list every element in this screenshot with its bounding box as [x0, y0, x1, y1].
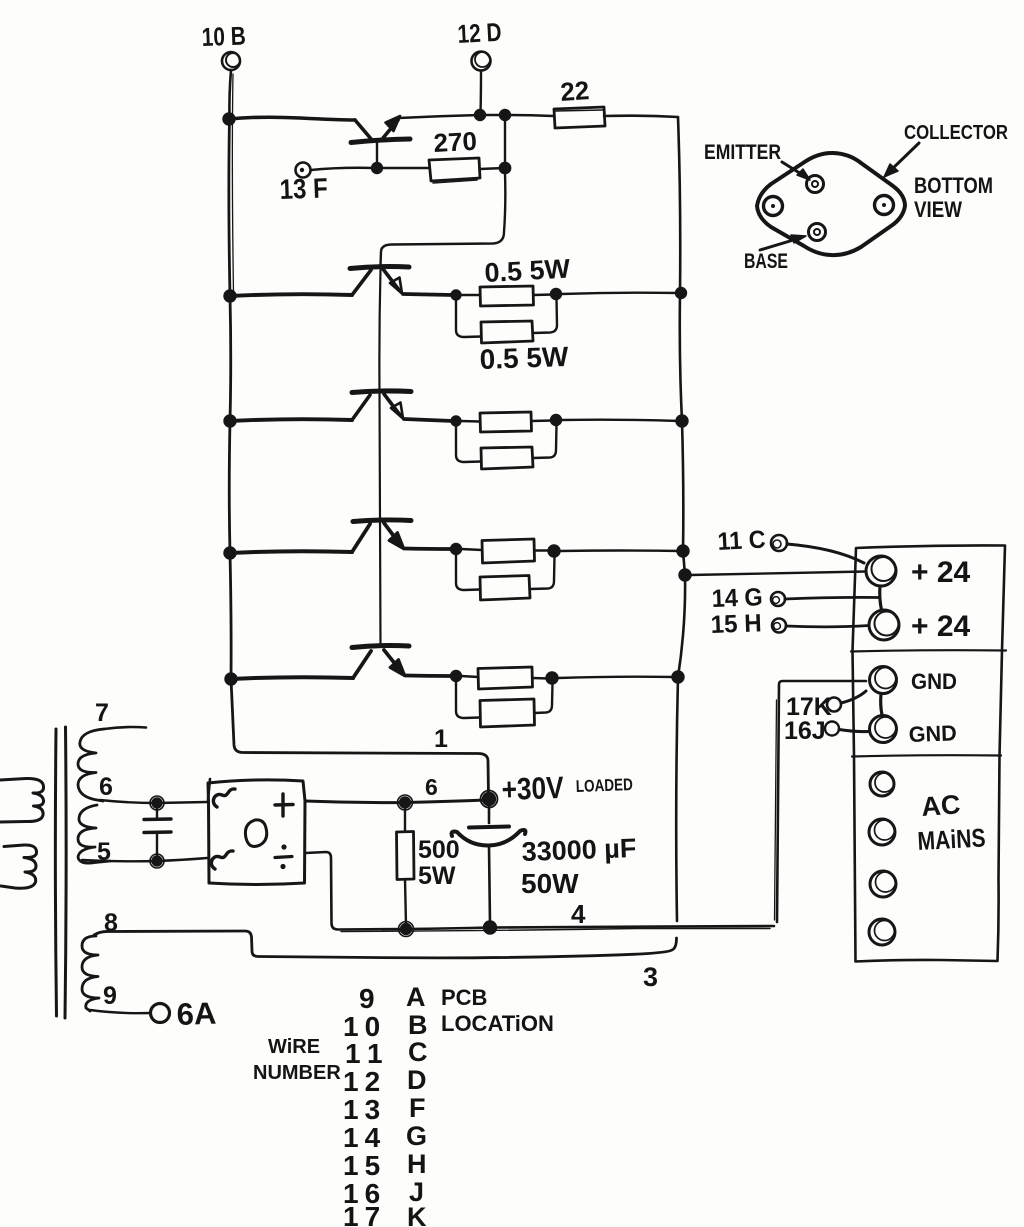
svg-text:17: 17	[343, 1201, 386, 1227]
wire 13F to base node	[311, 168, 376, 170]
TO-3 package outline	[757, 153, 905, 255]
svg-text:33000 µF: 33000 µF	[521, 833, 637, 867]
svg-text:GND: GND	[911, 669, 957, 694]
wire 4 rectifier minus to GND riser	[305, 852, 774, 932]
svg-text:+ 24: + 24	[911, 556, 971, 589]
node Q3 emitter right	[551, 415, 561, 425]
terminal 15H	[710, 609, 869, 639]
svg-text:COLLECTOR: COLLECTOR	[904, 122, 1008, 144]
svg-text:10 B: 10 B	[201, 20, 246, 52]
AC mains terminal 3	[870, 871, 896, 897]
resistor R5b	[456, 553, 555, 600]
resistor R6a	[461, 667, 549, 689]
svg-text:0.5 5W: 0.5 5W	[479, 341, 569, 375]
node Q1 base	[372, 163, 382, 173]
transistor Q2	[230, 267, 453, 297]
node bus Q3 row	[225, 416, 236, 427]
node rail-R270	[500, 110, 510, 120]
AC mains terminal 2	[869, 819, 895, 845]
node bus Q2 row	[225, 291, 236, 302]
terminal 12D	[457, 17, 503, 114]
svg-text:PCB: PCB	[441, 985, 487, 1010]
svg-text:50W: 50W	[521, 868, 579, 899]
wire base node to R270	[382, 167, 429, 169]
terminal +24 lower	[869, 610, 971, 643]
terminal 14G	[711, 583, 879, 613]
label COLLECTOR with arrow	[884, 122, 1008, 177]
svg-text:12: 12	[343, 1066, 386, 1097]
bridge rectifier U1	[208, 779, 305, 885]
svg-text:11 C: 11 C	[717, 526, 766, 556]
svg-text:0.5 5W: 0.5 5W	[484, 254, 572, 288]
svg-text:15 H: 15 H	[710, 609, 762, 639]
svg-text:6: 6	[99, 773, 113, 801]
resistor R3a 0.5 5W	[460, 254, 571, 306]
terminal GND upper	[870, 667, 958, 695]
label BOTTOM VIEW	[914, 173, 993, 222]
wire GND link	[881, 694, 882, 715]
wire Q3 row to right bus	[561, 420, 679, 421]
terminal 10B	[201, 20, 246, 118]
node Q5 emitter right	[547, 673, 558, 684]
transistor Q5	[231, 646, 453, 680]
node right bus Q2	[676, 288, 686, 298]
resistor R2 270ohm	[429, 126, 504, 183]
label wire 1	[434, 725, 448, 753]
pcb location table	[406, 982, 428, 1227]
node cap top	[150, 796, 164, 810]
label PCB LOCATION	[441, 985, 554, 1036]
label 7	[95, 699, 109, 727]
svg-text:5W: 5W	[418, 862, 456, 890]
svg-text:LOCATiON: LOCATiON	[441, 1011, 554, 1036]
resistor R6b	[456, 680, 553, 727]
wire Q4 row to right bus	[560, 549, 680, 552]
label EMITTER with arrow	[704, 141, 810, 180]
terminal block outline	[853, 545, 1006, 961]
label 5 winding	[97, 838, 111, 866]
svg-text:500: 500	[418, 836, 460, 864]
svg-text:K: K	[407, 1202, 427, 1227]
svg-text:NUMBER: NUMBER	[253, 1062, 341, 1084]
transistor Q1	[351, 116, 410, 167]
svg-text:WiRE: WiRE	[268, 1036, 320, 1058]
capacitor C2 33000uF	[452, 805, 637, 924]
resistor R4b	[456, 425, 557, 469]
node 500 bottom	[399, 922, 414, 937]
wire 6 transformer to rectifier	[100, 800, 207, 803]
node right bus Q4	[678, 546, 689, 557]
node C2 bottom	[484, 922, 496, 934]
svg-text:A: A	[406, 982, 426, 1012]
svg-text:D: D	[407, 1065, 427, 1095]
transformer T1 winding 8-9	[82, 936, 99, 1011]
wire +24 link	[880, 586, 882, 610]
wire base bus Q2-Q5	[379, 270, 380, 646]
svg-text:+ 24: + 24	[911, 610, 971, 643]
svg-text:270: 270	[433, 126, 478, 158]
resistor R7 500 5W	[397, 807, 460, 925]
AC mains terminal 4	[869, 919, 895, 945]
terminal block divider 2	[852, 755, 1001, 756]
svg-text:6A: 6A	[176, 996, 217, 1032]
svg-text:B: B	[408, 1010, 428, 1040]
wire base bus from R270 node to Q2 base	[381, 173, 506, 265]
terminal +24 upper	[866, 556, 971, 589]
node bus Q4 row	[225, 548, 236, 559]
svg-text:F: F	[409, 1093, 426, 1123]
terminal GND lower	[870, 716, 958, 747]
TO-3 emitter pin	[807, 176, 824, 193]
node Q4 emitter left	[451, 544, 461, 554]
terminal 11C	[717, 526, 864, 563]
svg-text:G: G	[406, 1121, 427, 1151]
svg-text:13: 13	[343, 1094, 386, 1125]
transformer T1 primary winding lower	[1, 845, 37, 888]
svg-text:+30V: +30V	[501, 770, 564, 807]
TO-3 mounting hole right	[875, 196, 894, 215]
svg-text:1: 1	[434, 725, 448, 753]
TO-3 mounting hole left	[764, 197, 783, 216]
wire 8 to wire 3 run	[94, 931, 677, 992]
node bus Q5 row	[226, 674, 237, 685]
label BASE with arrow	[744, 235, 806, 273]
label AC MAINS	[917, 789, 986, 856]
node rail-12D	[475, 110, 485, 120]
wire R270-node vertical to rail	[504, 120, 506, 163]
wire right bus	[676, 117, 685, 921]
node right bus Q5	[673, 672, 684, 683]
terminal block divider 1	[851, 650, 1006, 651]
node Q5 emitter left	[451, 671, 461, 681]
wire 9 to terminal 6A	[90, 1010, 150, 1013]
node Q4 emitter right	[549, 546, 560, 557]
svg-text:BASE: BASE	[744, 250, 788, 273]
transistor Q4	[230, 520, 453, 553]
wire number table	[343, 983, 391, 1227]
terminal 16J	[784, 717, 868, 745]
svg-text:H: H	[407, 1149, 427, 1179]
node right bus Q3	[677, 416, 688, 427]
wire 6 rectifier plus output	[305, 774, 486, 803]
wire right bus to +24 terminal	[690, 572, 866, 576]
node bus Q1 row	[224, 114, 235, 125]
node 500 top	[398, 795, 413, 810]
transformer T1 primary winding upper	[0, 778, 44, 822]
terminal 13F	[279, 163, 328, 205]
label WIRE NUMBER	[253, 1036, 341, 1084]
node Q3 emitter left	[452, 417, 461, 426]
svg-text:VIEW: VIEW	[914, 197, 962, 222]
svg-text:AC: AC	[920, 789, 961, 822]
svg-text:16J: 16J	[784, 717, 826, 745]
wire GND riser	[775, 681, 867, 922]
node cap bottom	[150, 854, 164, 868]
svg-text:11: 11	[345, 1038, 391, 1069]
svg-text:15: 15	[343, 1150, 386, 1181]
resistor R1 22ohm	[554, 75, 605, 128]
svg-text:LOADED: LOADED	[575, 775, 633, 796]
label 9	[103, 982, 117, 1010]
svg-text:4: 4	[571, 899, 586, 929]
resistor R4a	[460, 412, 553, 432]
wire Q2 row to right bus	[561, 293, 678, 294]
transformer T1 core	[55, 727, 66, 1018]
wire top rail	[229, 115, 678, 120]
svg-text:3: 3	[643, 962, 658, 992]
capacitor C1	[144, 807, 171, 857]
transformer T1 secondary 6-5	[78, 805, 110, 863]
AC mains terminal 1	[870, 772, 894, 796]
resistor R5a	[461, 539, 551, 563]
label 8	[104, 909, 118, 937]
svg-text:22: 22	[559, 75, 590, 107]
transistor Q3	[230, 391, 453, 421]
svg-text:9: 9	[359, 983, 375, 1014]
node Q2 emitter right	[551, 289, 561, 299]
svg-text:C: C	[408, 1037, 428, 1067]
resistor R3b 0.5 5W	[456, 299, 569, 375]
svg-text:GND: GND	[908, 720, 957, 747]
label +30V LOADED	[501, 770, 633, 807]
TO-3 base pin	[809, 224, 826, 241]
svg-text:BOTTOM: BOTTOM	[914, 173, 993, 198]
svg-text:6: 6	[425, 774, 438, 800]
svg-text:9: 9	[103, 982, 117, 1010]
node R270 right	[500, 163, 510, 173]
wire Q5 row to right bus	[558, 677, 675, 678]
wire 5 transformer to rectifier	[82, 858, 207, 861]
svg-text:14: 14	[343, 1122, 386, 1153]
node +30V junction	[481, 791, 498, 808]
label 6 winding	[99, 773, 113, 801]
svg-text:EMITTER: EMITTER	[704, 141, 781, 164]
svg-text:12 D: 12 D	[457, 17, 503, 49]
terminal 6A	[151, 996, 217, 1032]
node right bus +24 tap	[680, 570, 691, 581]
wire left bus	[229, 74, 489, 796]
node Q2 emitter left	[452, 291, 461, 300]
svg-text:7: 7	[95, 699, 109, 727]
terminal 17K	[786, 691, 866, 721]
transformer T1 secondary 7-6	[78, 727, 146, 801]
svg-text:MAiNS: MAiNS	[917, 822, 986, 856]
